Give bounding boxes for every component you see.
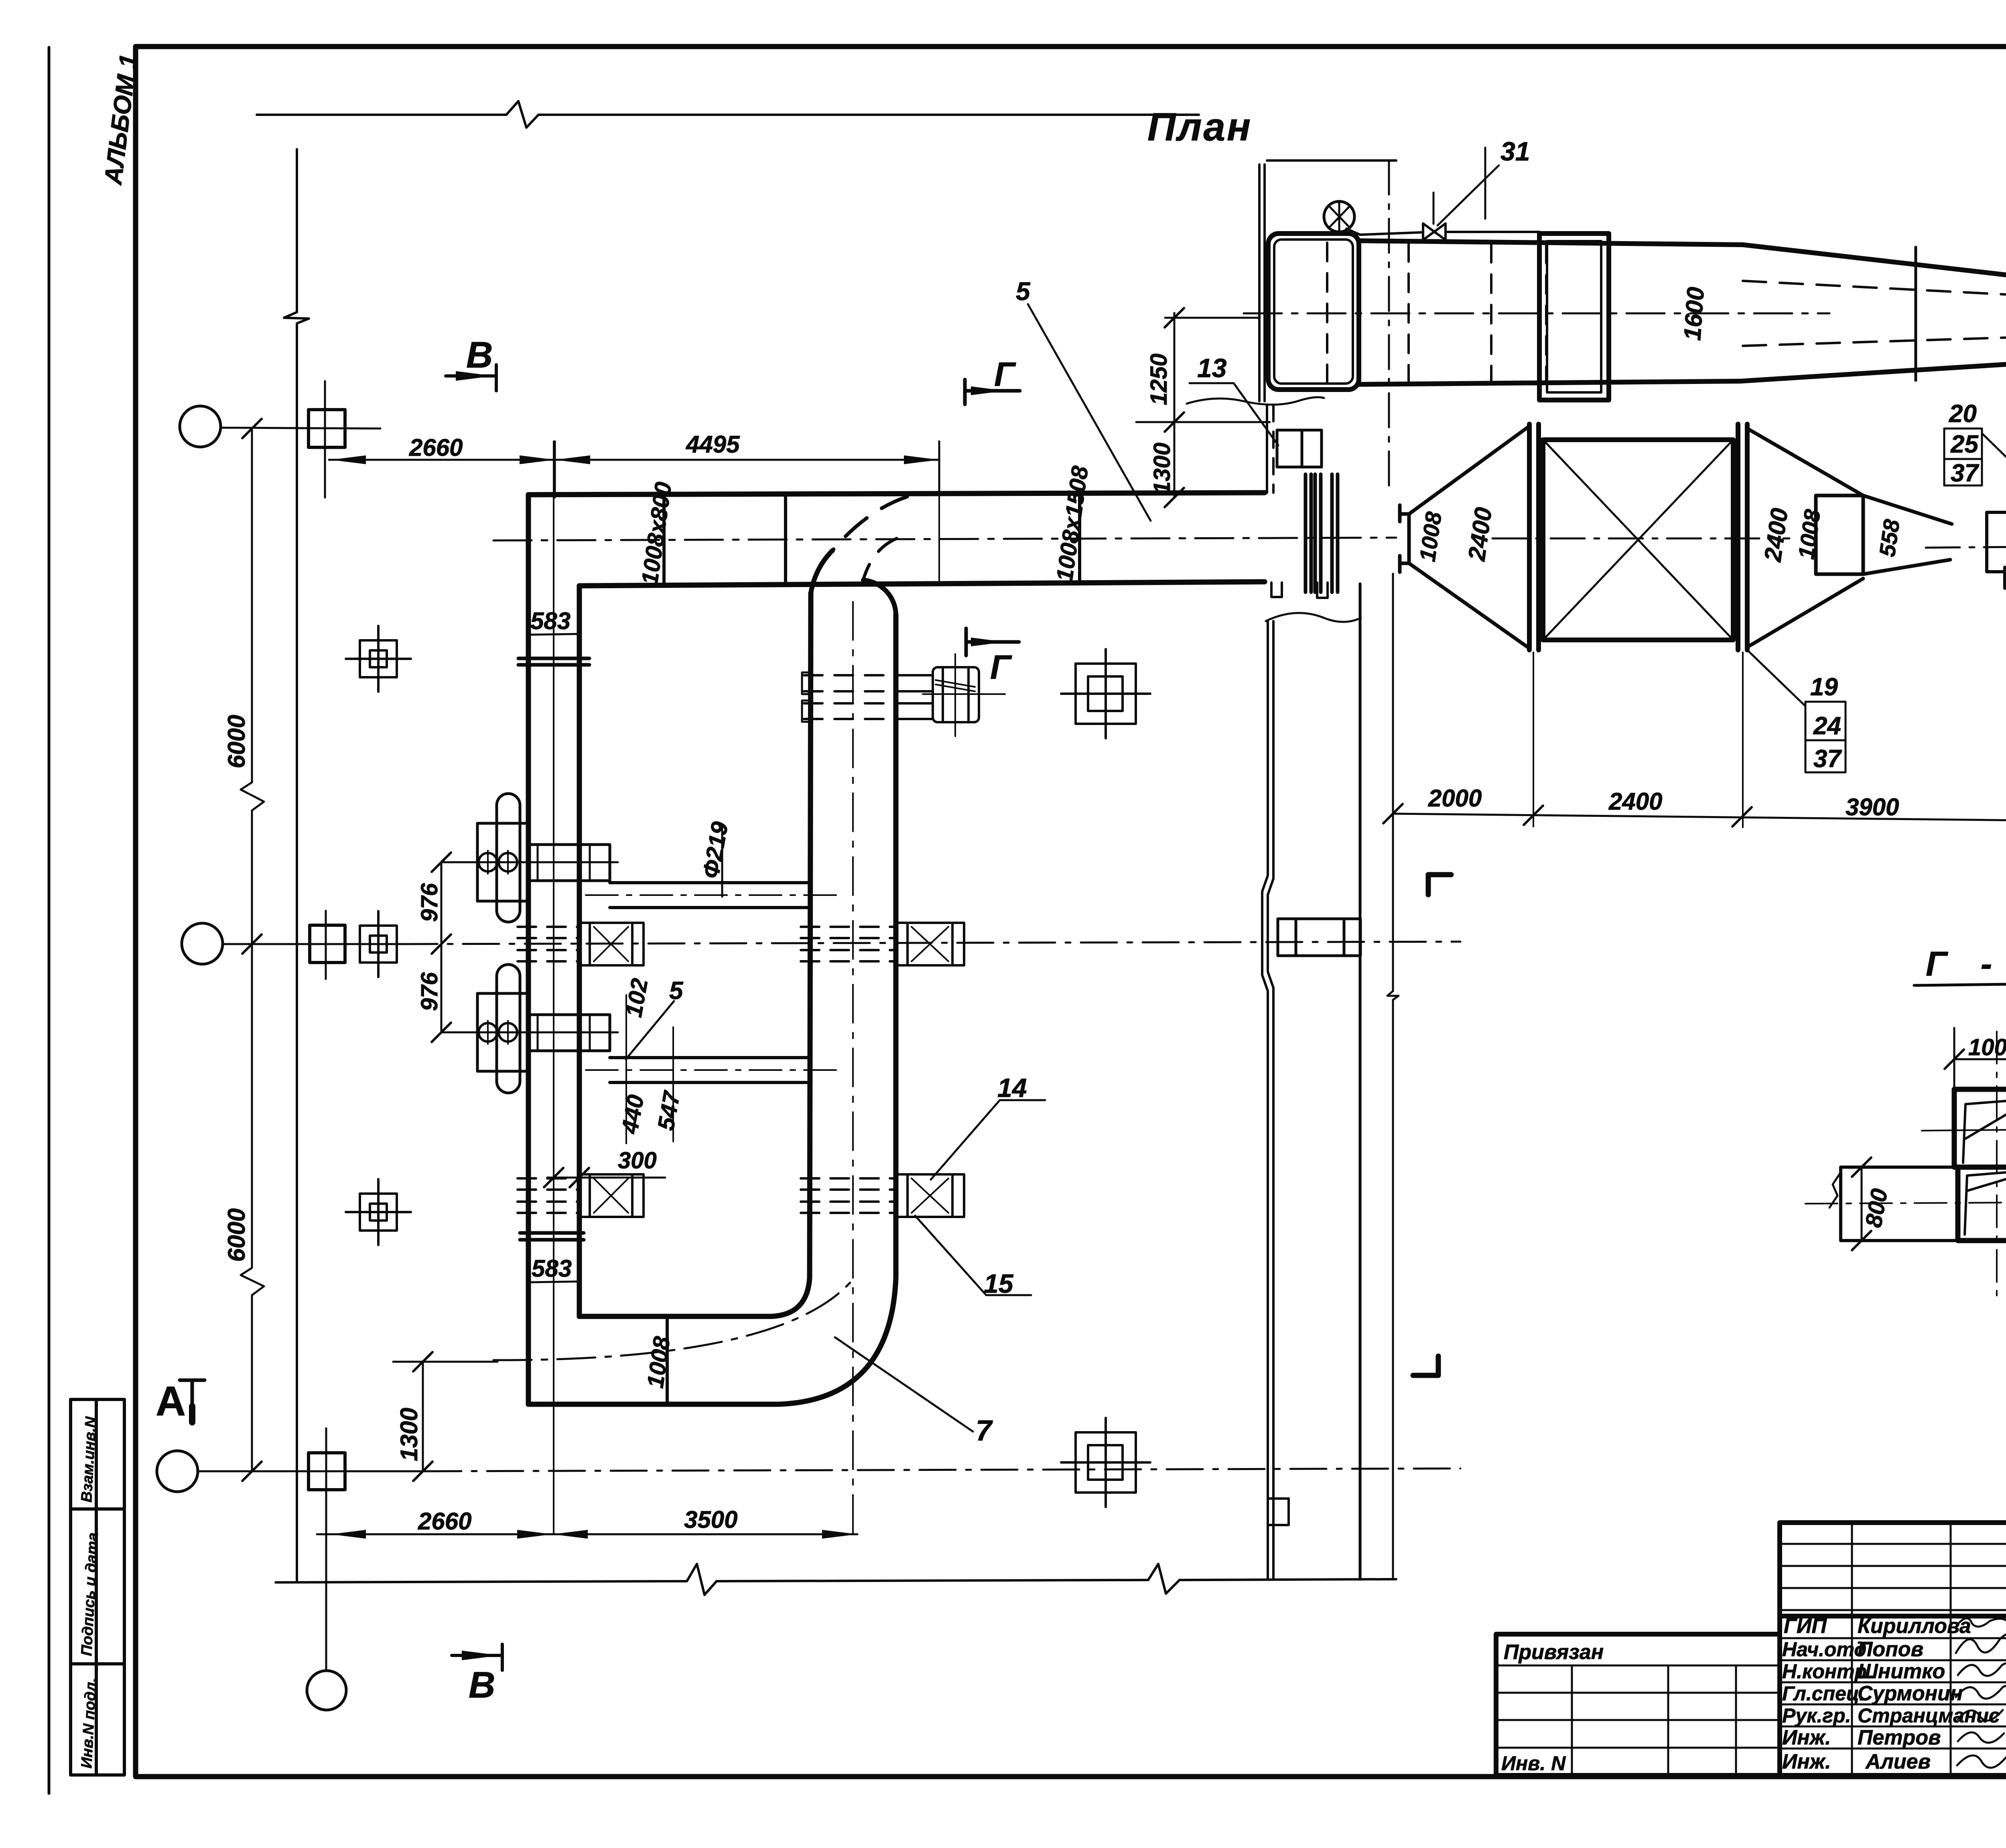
bottom U duct: bottom edge [528,1402,778,1407]
G-G left break [1829,1172,1841,1208]
svg-text:583: 583 [532,1255,572,1282]
burner2 head [530,1015,610,1051]
dim line 6000 vertical [251,428,253,1471]
column square row3 [309,1453,345,1490]
dim 300 line [547,1177,665,1179]
column square row1 [309,410,345,447]
svg-text:Г: Г [990,648,1012,686]
axis row2 dash-dot continuation [401,942,1460,944]
wall left face double line lower run [1262,621,1273,1579]
small column marker r3 [346,1179,411,1245]
svg-text:Привязан: Привязан [1504,1641,1604,1664]
building wall line bottom (broken) [276,1579,1396,1582]
small column marker mid-right upper [1061,649,1150,738]
svg-text:1300: 1300 [1149,443,1175,494]
section mark A left: arrow [180,1380,205,1424]
bottom U duct: top edge [579,1314,771,1319]
top dim line 2660 / 4495 [329,459,939,461]
hx box diagonals [1543,440,1733,640]
svg-text:Шнитко: Шнитко [1858,1660,1945,1683]
svg-text:300: 300 [618,1147,657,1174]
burner2 pipe [610,1058,810,1082]
svg-text:37: 37 [1813,745,1842,773]
flange on left duct upper [518,658,589,665]
left vertical duct right edge [577,586,582,1316]
boiler duct 1600 bottom edge [1359,381,1740,384]
compensator flange pair at wall crossing [1306,474,1338,592]
U elbow inner arc [771,1278,810,1316]
handwheel valve circle [1324,201,1354,232]
svg-text:2000: 2000 [1428,785,1482,812]
label 5 top leader [1028,304,1151,521]
support under elbow [802,654,1005,736]
svg-text:1250: 1250 [1146,353,1172,405]
break mark left wall [284,312,309,323]
wall left face below break to duct [1266,405,1268,493]
svg-text:Инж.: Инж. [1782,1726,1831,1749]
boiler outlet flange box inner [1547,241,1601,392]
elbow outer arc hidden dashed part [832,497,907,550]
svg-text:15: 15 [984,1269,1014,1298]
ext line 4495 through duct [938,496,940,583]
burner1 bolt circles [479,853,497,871]
axis row3 dash-dot continuation [425,1468,1460,1471]
svg-text:Н.контр: Н.контр [1782,1660,1867,1683]
interior line right of wall [1392,574,1394,1579]
G mark top: bracket [965,380,1020,404]
burner1 stadium [497,794,520,922]
valve top rod [1433,193,1435,224]
G-G lower damper blade [1965,1171,2006,1235]
elbow inner arc solid part [863,580,896,615]
svg-text:В: В [469,1665,495,1706]
svg-text:Г: Г [994,355,1016,393]
svg-text:Алиев: Алиев [1865,1750,1931,1773]
svg-text:Рук.гр.: Рук.гр. [1782,1704,1851,1727]
svg-text:20: 20 [1949,400,1977,428]
small column marker r1 [346,626,411,692]
label 5 mid leader [626,1001,674,1059]
svg-text:5: 5 [1016,277,1031,306]
dim 976 line [441,862,443,1032]
joint line [784,494,787,585]
svg-text:Инж.: Инж. [1782,1750,1831,1773]
svg-text:1008: 1008 [1968,1034,2006,1060]
label 13 underline and leader [1190,383,1278,445]
svg-text:7: 7 [976,1415,993,1447]
svg-text:В: В [466,335,493,376]
svg-text:558: 558 [1874,518,1904,558]
valve riser line [1484,148,1486,219]
valve to flange pipe [1446,231,1539,233]
wall wavy break upper [1187,397,1324,405]
transition hidden top dashed [1743,281,2006,298]
wall beam support row2 [1278,919,1360,956]
break mark bottom wall 2 [1148,1564,1180,1594]
dim ext lines mid [626,995,673,1143]
svg-text:ГИП: ГИП [1784,1614,1827,1638]
boiler outlet flange box outer [1539,234,1609,400]
column square row2 [310,925,345,963]
svg-text:6000: 6000 [223,1208,250,1262]
svg-text:Петров: Петров [1858,1726,1941,1749]
joint line on bottom duct [666,1316,669,1404]
svg-text:2660: 2660 [418,1508,471,1535]
G-G underline [1914,984,2006,985]
flange joint 1008x800 [662,495,666,586]
G corner mark right upper [1428,875,1451,895]
svg-text:Гл.спец.: Гл.спец. [1782,1682,1865,1705]
svg-text:976: 976 [416,883,443,922]
G-G centerline horizontal lower [1805,1202,2006,1204]
burner1 axis [441,861,618,863]
ext line for 1250 bottom [1136,421,1270,423]
grid circle bottom col [307,1671,346,1710]
svg-text:6000: 6000 [223,715,250,768]
signatures squiggles [1956,1618,2006,1767]
boiler duct 1600 top edge [1359,241,1743,245]
burner2 bracket rect [477,993,530,1071]
handwheel spokes [1329,201,1350,232]
boiler outline outer [1268,234,1359,390]
wall axis dash-dot upper [1388,160,1390,493]
bottom dim line 2660/3500 [317,1533,857,1535]
burner1 head [530,845,610,881]
ext lines for dims [1533,652,2006,827]
joint line 2 [1078,493,1081,583]
svg-text:3500: 3500 [684,1506,737,1533]
dim 1300 bottom line [393,1362,497,1471]
dims 2000 2400 3900 [1393,814,2006,821]
axis line row1 [221,428,380,428]
top duct bottom edge [579,582,1265,586]
top horizontal duct top edge [528,493,1265,495]
grid circle row1 [180,406,221,447]
right transition from box [1747,428,1863,647]
svg-text:1300: 1300 [396,1408,422,1461]
svg-text:976: 976 [416,972,443,1011]
svg-text:Кириллова: Кириллова [1858,1614,1971,1638]
svg-text:А: А [156,1378,186,1425]
phi219 tick line [721,827,723,897]
svg-text:25: 25 [1950,431,1979,458]
support on left duct row lower [518,1174,644,1217]
svg-text:Инв. N: Инв. N [1501,1752,1566,1775]
elbow inner arc hidden dashed part [863,538,897,579]
descending duct left edge [810,593,811,1278]
valve stem line [1346,229,1423,235]
underline 583 lower [528,1281,579,1282]
boiler duct axis [1244,313,1829,315]
G mark mid: bracket [966,628,1019,656]
G-G left rect [1841,1167,1958,1241]
G-G centerline vertical [1996,1032,1998,1303]
hx box [1543,440,1733,640]
grid circle row2 [182,923,223,964]
section mark B bottom: arrow [452,1644,502,1670]
G-G centerline horizontal upper [1922,1129,2006,1131]
column axis vertical through squares [325,381,326,1671]
support on right duct row2 [801,923,964,965]
support on right duct row lower [801,1174,964,1217]
svg-text:Сурмонин: Сурмонин [1858,1682,1963,1705]
burner1 pipe axis [586,894,843,896]
U elbow outer arc [778,1278,896,1404]
hx box centerline [1492,538,1789,540]
wall top edge line [1267,159,1396,162]
transition bottom edge [1740,364,2006,381]
ext line for 1250 top [1165,317,1259,319]
svg-text:5: 5 [669,977,684,1005]
svg-text:Попов: Попов [1858,1638,1923,1661]
fan bracket below [2005,567,2006,588]
svg-text:3900: 3900 [1846,794,1899,820]
section mark V top: arrow [446,365,496,391]
small 1008 duct right [1816,496,1863,574]
elbow outer arc solid part [811,550,832,593]
wall beam box item13 [1277,430,1322,467]
leader 19 stack [1747,650,1805,706]
svg-text:1600: 1600 [1679,286,1709,341]
label 31 leader [1437,165,1499,225]
G-G upper damper blade [1963,1099,2006,1163]
svg-text:Г - Г: Г - Г [1926,945,2006,983]
small column marker r2 [360,911,397,977]
burner2 axis [441,1032,618,1034]
column axis through left duct [553,441,554,1534]
boiler outline inner [1274,240,1353,384]
G corner mark right lower [1413,1356,1438,1375]
svg-text:31: 31 [1500,136,1530,166]
hx right flange bars [1738,424,1747,650]
feet below duct at wall [1271,583,1328,598]
transition 1008 to 558 [1863,496,1952,574]
underline 583 upper [528,634,579,635]
svg-text:14: 14 [997,1073,1027,1103]
gate valve bowtie [1423,223,1446,240]
left vertical duct left edge [526,495,531,1404]
burner2 stadium [497,965,520,1093]
svg-text:2400: 2400 [1608,788,1662,815]
wall left face double line upper [1259,164,1265,401]
descending duct right edge [893,615,899,1278]
label 7 leader [835,1337,973,1432]
label 14 leader [931,1100,1045,1180]
hx left flange bars [1529,424,1539,650]
flange on left duct lower [520,1233,584,1240]
transition hidden bottom dashed [1743,336,2006,346]
svg-text:37: 37 [1951,459,1979,487]
small rect on wall lower [1268,1499,1289,1525]
joint in transition [1915,247,1917,380]
U duct axis [493,1280,853,1360]
grid circle row3 [157,1451,198,1492]
wall wavy break below duct [1266,613,1361,622]
burner1 pipe [610,883,810,908]
fan inlet box [1987,512,2006,572]
support on left duct row2 [518,923,644,965]
svg-text:4495: 4495 [686,431,740,458]
axis line row3 [198,1470,425,1472]
wall right face dashed below break [1272,405,1275,493]
left transition to box [1400,426,1529,648]
G-G upper box [1954,1089,2006,1167]
svg-text:2660: 2660 [409,434,463,461]
dim ticks 6000 [242,419,262,1481]
break mark bottom wall 1 [687,1564,717,1595]
burner1 bracket rect [477,823,530,901]
break mark top wall [506,101,538,128]
dim line 1250/1300 [1174,313,1176,498]
transition top edge [1743,245,2006,282]
svg-text:19: 19 [1810,673,1838,701]
sheet outer left edge line [48,47,51,1793]
svg-text:Нач.отд: Нач.отд [1782,1638,1866,1661]
label 15 leader [915,1216,1031,1295]
break marks on 6000 dim [241,782,264,1295]
G-G lower box [1958,1167,2006,1241]
svg-text:583: 583 [530,607,571,634]
duct axis dash-dot [493,538,1396,540]
svg-text:13: 13 [1197,353,1226,383]
svg-text:24: 24 [1813,712,1841,740]
svg-text:План: План [1147,105,1252,149]
small column marker mid-right lower [1061,1418,1150,1507]
wall right face line [1359,584,1362,1579]
left margin stamp strip [71,1399,124,1775]
leader 20-25-37 [1982,433,2006,483]
burner2 bolt circles [479,1023,497,1042]
building wall line top (broken) [257,114,1199,116]
building wall line left vertical [296,149,298,1581]
burner2 pipe axis [586,1069,843,1071]
descending duct axis [852,602,854,1534]
G-G left dim line [1861,1167,1863,1241]
G-G dim 1008 line [1954,1028,2006,1088]
axis line row2 [223,943,401,945]
hidden joints in boiler duct [1327,243,1546,384]
fan axis horizontal [1926,545,2006,548]
